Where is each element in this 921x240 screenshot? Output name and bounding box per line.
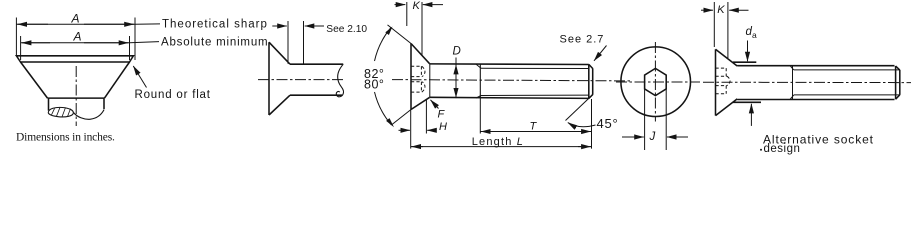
svg-text:Theoretical sharp: Theoretical sharp [162,19,268,31]
svg-text:H: H [439,121,447,133]
svg-text:Length L: Length L [472,136,524,148]
svg-text:design: design [764,143,801,155]
svg-text:A: A [71,12,81,26]
svg-text:A: A [73,30,83,44]
svg-text:J: J [649,131,656,143]
svg-text:K: K [413,0,421,12]
svg-text:Absolute minimum: Absolute minimum [161,36,268,48]
svg-text:45°: 45° [597,116,619,131]
svg-text:See 2.7: See 2.7 [560,34,605,46]
svg-text:See 2.10: See 2.10 [326,24,367,35]
svg-text:D: D [453,46,461,58]
svg-text:a: a [752,30,757,40]
svg-text:K: K [717,4,725,16]
svg-text:Dimensions in inches.: Dimensions in inches. [16,132,115,144]
svg-text:80°: 80° [364,77,384,91]
svg-text:Round or flat: Round or flat [135,89,211,101]
